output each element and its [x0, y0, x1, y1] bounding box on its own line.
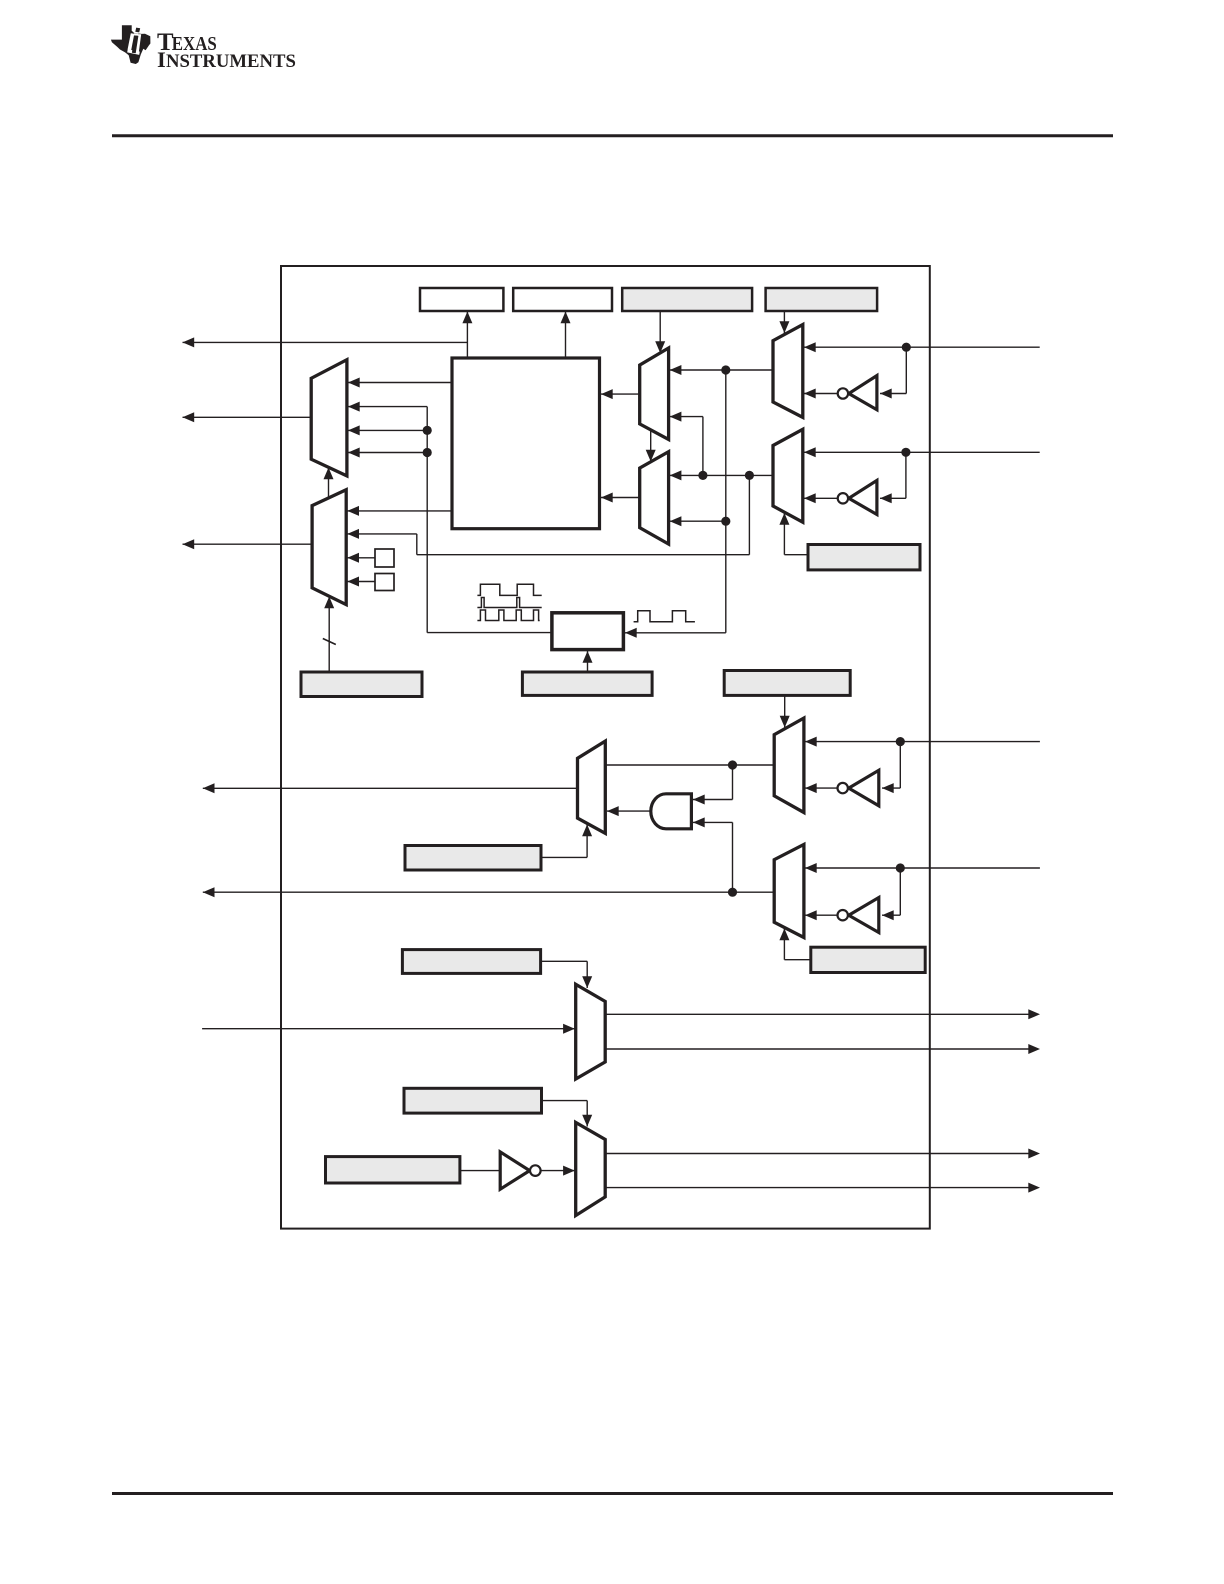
wire G2 to U4: [587, 651, 589, 672]
wire M4 output to U1: [601, 497, 640, 499]
inverter U3: [849, 480, 877, 514]
junction dot: [423, 426, 432, 435]
wire U7 in2: [693, 821, 733, 823]
wire inverter U2 feed: [905, 347, 907, 393]
wire G8 select to M10: [541, 960, 588, 962]
wire input to M10: [202, 1028, 575, 1030]
wire U3 to M6 in2: [804, 497, 838, 499]
register box G3: [724, 671, 850, 696]
clock divider box U4: [552, 613, 624, 650]
module boundary box: [281, 266, 930, 1229]
mux M6: [773, 429, 803, 522]
register box B4: [766, 288, 878, 311]
wire M2 in3 from S1: [347, 557, 375, 559]
wire U7 output to M9: [607, 810, 651, 812]
svg-text:I: I: [157, 47, 166, 72]
wire M10 out1: [605, 1013, 1029, 1015]
register box G5: [808, 545, 920, 570]
mux M1: [311, 360, 347, 476]
junction dot: [721, 365, 730, 374]
wire G9 select to M11: [542, 1100, 588, 1102]
wire inverter U5 feed: [899, 742, 901, 789]
config square S1: [375, 549, 394, 567]
wire M6 select from G5: [783, 513, 785, 555]
register box G1: [301, 672, 422, 697]
register box B2: [513, 288, 612, 311]
junction dot: [745, 471, 754, 480]
wire M8 select from G7: [783, 929, 785, 960]
wire M9 output to left pin: [203, 787, 578, 789]
wire M1 select: [328, 468, 330, 499]
wire pad bus P1 vertical: [725, 370, 727, 633]
wire M3 in2: [670, 416, 703, 418]
wire M6 in1 pad line: [804, 451, 1040, 453]
waveform W4: [634, 611, 695, 622]
wire M9 select from G6: [541, 856, 587, 858]
wire U5 to M7 in2: [805, 787, 838, 789]
inverter U5 bubble: [838, 783, 848, 793]
wire inverter U6 feed: [899, 868, 901, 915]
wire pad bus P2 vertical: [748, 475, 750, 554]
wire M11 out1: [605, 1153, 1029, 1155]
junction dot: [721, 517, 730, 526]
register box B3: [622, 288, 752, 311]
register box G8: [402, 950, 540, 974]
inverter U8: [500, 1152, 530, 1189]
wire M7 output net: [605, 764, 774, 766]
svg-text:NSTRUMENTS: NSTRUMENTS: [166, 51, 296, 72]
wire M2 in2 drop: [416, 534, 418, 555]
junction dot: [698, 471, 707, 480]
mux M9: [578, 741, 606, 833]
inverter U5: [849, 770, 879, 806]
wire M11 out2: [605, 1187, 1029, 1189]
wire M5 in1 pad line: [804, 346, 1040, 348]
wire M1 in3: [348, 429, 427, 431]
state machine block U1: [452, 358, 600, 529]
register box G6: [405, 846, 541, 871]
wire M2 output to left pin: [183, 543, 313, 545]
junction dot: [728, 760, 737, 769]
waveform W1: [477, 584, 541, 595]
mux M2: [312, 490, 346, 605]
waveform W2: [477, 598, 541, 608]
mux M3: [640, 348, 669, 440]
wire M4 select link: [650, 431, 652, 462]
wire M2 in2: [347, 533, 417, 535]
junction dot: [901, 448, 910, 457]
inverter U6 bubble: [838, 910, 848, 920]
inverter U6: [849, 898, 879, 933]
register box B1: [420, 288, 503, 311]
wire M8 output to left pin: [203, 891, 774, 893]
mux M10: [576, 984, 606, 1079]
wire U1 top to B1: [466, 312, 468, 359]
wire M3 output to U1: [601, 393, 640, 395]
wire inverter U3 feed: [905, 452, 907, 498]
inverter U3 bubble: [838, 493, 848, 503]
wire net out1 to left pin: [183, 341, 468, 343]
junction dot: [896, 737, 905, 746]
junction dot: [902, 343, 911, 352]
config square S2: [375, 574, 394, 591]
AND gate U7: [651, 794, 692, 829]
mux M7: [774, 718, 804, 812]
wire M1 in1 from U1: [348, 382, 452, 384]
mux M8: [774, 844, 804, 937]
junction dot: [896, 863, 905, 872]
wire M2 in4 from S2: [347, 581, 375, 583]
wire M1 in2: [348, 406, 427, 408]
wire G3 select to M7: [784, 695, 786, 727]
wire M1 in4: [348, 452, 427, 454]
wire bus vertical: [426, 407, 428, 633]
wire P1 into clock box: [625, 632, 726, 634]
wire M2 select from G1: [328, 597, 330, 673]
wire M1 output to left pin: [183, 416, 312, 418]
waveform W3: [477, 610, 539, 621]
wire U8 to M11: [541, 1170, 575, 1172]
footer rule: [112, 1492, 1113, 1495]
bus width slash: [323, 639, 336, 645]
wire M4 in1 net: [670, 474, 773, 476]
wire U2 to M5 in2: [804, 393, 838, 395]
register box G10: [326, 1157, 460, 1183]
wire U7 in1: [693, 799, 733, 801]
wire B4 select to mux M5: [783, 311, 785, 333]
register box G7: [811, 947, 925, 972]
wire M2 in1 from U1: [347, 510, 452, 512]
wire M4 in2: [670, 520, 726, 522]
register box G9: [404, 1088, 542, 1113]
wire U6 to M8 in2: [805, 914, 838, 916]
wire B3 select to mux M3: [659, 311, 661, 353]
wire M8 in1 pad line: [805, 867, 1040, 869]
inverter U8 bubble: [530, 1165, 541, 1176]
header rule: [112, 134, 1113, 137]
mux M4: [640, 452, 669, 544]
register box G2: [522, 672, 652, 695]
wire G10 to inverter U8: [460, 1170, 500, 1172]
mux M11: [576, 1122, 606, 1215]
inverter U2 bubble: [838, 388, 848, 398]
wire M3 in2 drop: [702, 417, 704, 476]
wire M10 out2: [605, 1048, 1029, 1050]
wire bus to clock box: [427, 632, 552, 634]
wire net A horizontal: [417, 554, 750, 556]
wire M3 in1: [670, 369, 773, 371]
wire M7 in1 pad line: [805, 741, 1040, 743]
TI logo mark (Texas map with ti): [111, 25, 150, 64]
junction dot: [423, 448, 432, 457]
junction dot: [728, 888, 737, 897]
inverter U2: [849, 376, 877, 410]
mux M5: [773, 325, 803, 418]
wire U1 top to B2: [565, 312, 567, 359]
